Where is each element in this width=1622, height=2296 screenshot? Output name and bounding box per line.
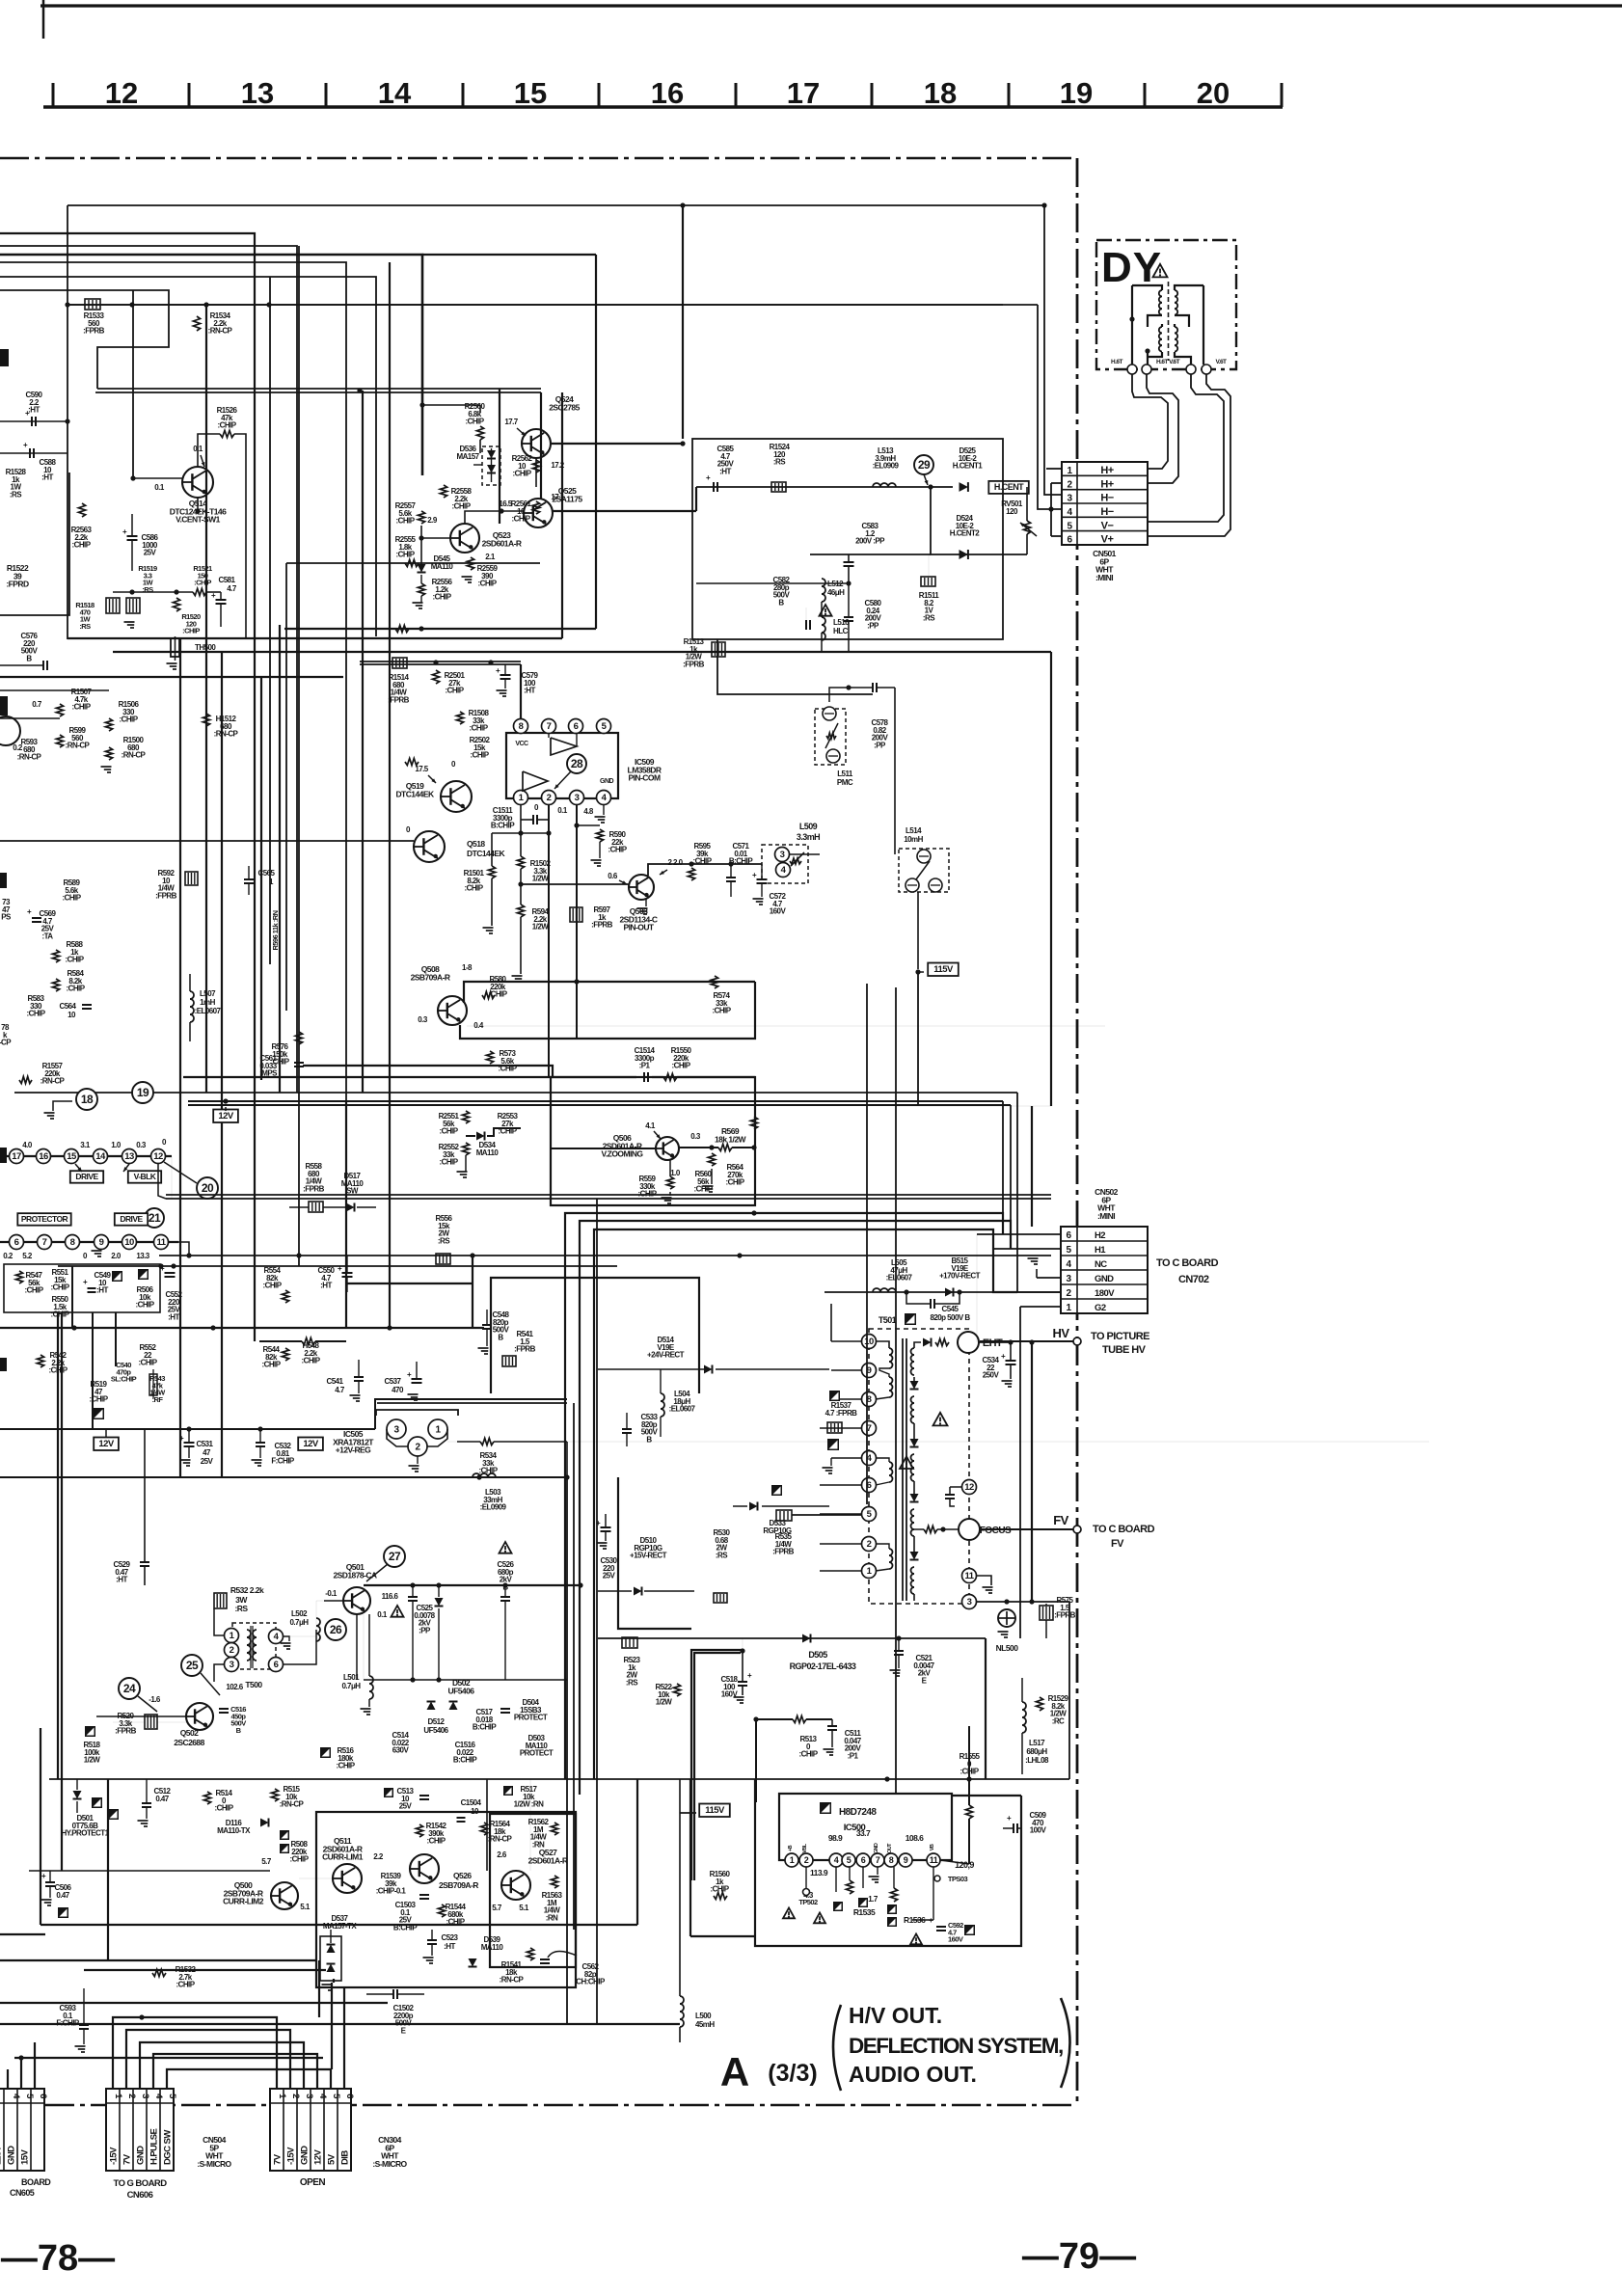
- wire x1109 vertical: [1068, 1602, 1070, 1779]
- svg-text::EL0607: :EL0607: [886, 1274, 913, 1283]
- wire CN502 G2 column: [1019, 1307, 1021, 1638]
- svg-text::RS: :RS: [438, 1237, 450, 1246]
- svg-text:1/2W: 1/2W: [532, 923, 549, 932]
- svg-text:DRIVE: DRIVE: [120, 1214, 143, 1224]
- DY junction node 2: [1145, 348, 1149, 353]
- T501 pin 2: [862, 1537, 877, 1552]
- wire CN502 H1 from bus: [1010, 1105, 1012, 1249]
- flag symbol c: [93, 1408, 104, 1419]
- wire CN304 col5 to box: [331, 1983, 333, 2069]
- wire vertical x150: [144, 1429, 146, 1562]
- svg-text:PROTECT: PROTECT: [520, 1749, 554, 1758]
- svg-text:6: 6: [344, 2093, 355, 2098]
- transistor Q502: [186, 1703, 213, 1730]
- L509 pin 3: [775, 848, 790, 862]
- svg-text:4.7: 4.7: [335, 1386, 345, 1394]
- flag symbol a: [112, 1271, 122, 1282]
- vertical x661: [636, 1779, 638, 1925]
- svg-text:GND: GND: [874, 1843, 879, 1853]
- IC500 pin 6: [856, 1853, 870, 1867]
- wire C583 row: [810, 554, 931, 555]
- svg-text:BOARD: BOARD: [21, 2177, 51, 2187]
- T501 pin 5: [862, 1507, 877, 1522]
- wire vertical x187: [179, 638, 181, 1477]
- wire x96 column: [92, 1312, 94, 1429]
- wire DY H+ to CN501 pin1: [1132, 374, 1168, 469]
- svg-text:5: 5: [847, 1855, 852, 1865]
- wire x60 column: [57, 1312, 59, 1779]
- IC509 pin 6: [569, 719, 583, 734]
- svg-text:0.1: 0.1: [557, 806, 568, 815]
- svg-text::CHIP: :CHIP: [217, 421, 236, 430]
- wire CN502 GND stub with ground: [1037, 1277, 1061, 1279]
- boxed label DRIVE a: [70, 1171, 103, 1183]
- svg-text::RN: :RN: [546, 1914, 558, 1923]
- svg-text:PMC: PMC: [837, 778, 853, 787]
- svg-text:+B: +B: [788, 1845, 794, 1851]
- svg-text:2SB709A-R: 2SB709A-R: [411, 972, 450, 982]
- wire x705 vertical: [679, 1779, 681, 1996]
- T501 pin 7: [862, 1421, 877, 1436]
- callout 27: [384, 1546, 405, 1567]
- svg-text:H.6T V.6T: H.6T V.6T: [1156, 359, 1180, 365]
- wire FV line: [982, 1528, 1077, 1530]
- vertical x770 from D505 line: [742, 1638, 743, 1682]
- svg-text:16: 16: [39, 1151, 48, 1162]
- svg-text::FPRB: :FPRB: [155, 892, 176, 901]
- junction bus y316 a: [65, 302, 69, 307]
- svg-text:GND: GND: [7, 2146, 17, 2165]
- svg-text::CHIP: :CHIP: [89, 1395, 108, 1404]
- junction DY wires: [1041, 203, 1046, 207]
- svg-text:15: 15: [514, 76, 547, 110]
- wire pin4 ground: [830, 1458, 832, 1466]
- svg-text:4: 4: [834, 1855, 839, 1865]
- svg-text:2SC2688: 2SC2688: [174, 1738, 204, 1747]
- IC500 warning triangle 2: [910, 1934, 922, 1945]
- boxed label 115V a: [928, 963, 959, 977]
- svg-text:12: 12: [105, 76, 138, 110]
- resistor R597: [570, 907, 582, 922]
- svg-text:VB: VB: [930, 1844, 935, 1850]
- flag symbol near R1537: [827, 1439, 839, 1450]
- svg-text::CHIP: :CHIP: [464, 884, 483, 893]
- wire D533 row: [733, 1505, 747, 1507]
- svg-text:H−: H−: [1100, 506, 1113, 518]
- test point TPS03: [934, 1876, 940, 1881]
- T501 primary winding upper: [889, 1348, 893, 1355]
- box around R1522: [0, 473, 69, 615]
- svg-text:NC: NC: [1095, 1259, 1107, 1270]
- boxed label DRIVE b: [115, 1213, 148, 1226]
- svg-text:115V: 115V: [705, 1805, 725, 1816]
- wire H.CENT row: [696, 486, 953, 488]
- DY yoke right leg wire: [1203, 285, 1204, 365]
- wire vertical x359 extension: [345, 1101, 347, 1328]
- svg-text:B:CHIP: B:CHIP: [453, 1756, 477, 1765]
- DY yoke H tap wire: [1147, 352, 1149, 365]
- transistor Q506: [656, 1137, 679, 1160]
- svg-text:B: B: [498, 1334, 503, 1342]
- svg-text::CHIP: :CHIP: [182, 627, 200, 635]
- section note parenthesis left: [833, 2005, 841, 2091]
- svg-text:NL500: NL500: [996, 1643, 1019, 1653]
- svg-text:+24V-RECT: +24V-RECT: [647, 1351, 685, 1360]
- svg-text::CHIP: :CHIP: [426, 1837, 446, 1846]
- wire bottom bus loop 4: [153, 2054, 317, 2089]
- wire vertical x310: [298, 246, 300, 1266]
- junction bus y316 c: [203, 302, 208, 307]
- resistor R2563: [78, 503, 85, 517]
- wire vertical x214: [205, 305, 207, 1093]
- wire x722 link: [695, 487, 697, 511]
- svg-text:PIN-OUT: PIN-OUT: [623, 923, 654, 932]
- svg-text:H.CENT2: H.CENT2: [950, 529, 980, 538]
- svg-text:H8D7248: H8D7248: [839, 1807, 877, 1818]
- svg-text::CHIP-0.1: :CHIP-0.1: [376, 1887, 407, 1896]
- svg-text:25V: 25V: [201, 1457, 214, 1466]
- wire Q523 Q525 link: [465, 511, 524, 524]
- svg-text::P1: :P1: [639, 1062, 651, 1070]
- resistor R2501: [432, 670, 439, 684]
- svg-text::PP: :PP: [874, 742, 886, 750]
- resistor R2558: [440, 485, 446, 498]
- svg-text::CHIP: :CHIP: [451, 502, 471, 511]
- svg-text:R532 2.2k: R532 2.2k: [230, 1585, 264, 1595]
- wire vertical x138: [132, 290, 134, 478]
- wire double bus y1146: [188, 1104, 1011, 1106]
- svg-text:TO C BOARD: TO C BOARD: [1093, 1524, 1155, 1535]
- IC500 pin 8: [884, 1853, 898, 1867]
- ruler tick 6: [871, 83, 874, 107]
- T501 pin 6: [862, 1478, 877, 1493]
- wire bus y214 to CN501 pin3: [68, 205, 1062, 495]
- T501 pin 4: [862, 1451, 877, 1466]
- IC500 pin 7: [871, 1853, 884, 1867]
- IC509 pin3 column: [576, 805, 578, 1039]
- wire left rows: [0, 689, 109, 691]
- wire y1940 mid: [299, 1877, 333, 1879]
- page border dash-dot bottom: [0, 2104, 1077, 2107]
- svg-text:H−: H−: [1100, 493, 1113, 504]
- svg-text:0.1: 0.1: [154, 483, 165, 492]
- svg-text:2: 2: [230, 1645, 234, 1656]
- wire staircase y272: [0, 262, 346, 1101]
- svg-text:2: 2: [290, 2093, 301, 2098]
- svg-text:TO G BOARD: TO G BOARD: [113, 2178, 167, 2189]
- svg-text:C531: C531: [197, 1440, 214, 1448]
- wire stub CN501 pin2: [1051, 482, 1062, 484]
- node H.CENT boxed label: [988, 481, 1029, 494]
- svg-text:F:CHIP: F:CHIP: [271, 1457, 295, 1466]
- svg-text:A: A: [720, 2049, 749, 2094]
- junction y1532: [476, 1474, 481, 1479]
- wire L509 out: [789, 853, 820, 855]
- wire vertical x290: [279, 625, 281, 1093]
- bus jog up: [375, 1399, 567, 1429]
- wire x928 down: [894, 688, 896, 854]
- svg-text:12V: 12V: [98, 1439, 114, 1449]
- svg-text:17: 17: [12, 1151, 21, 1162]
- L509 pin 4: [776, 863, 791, 878]
- svg-text:2: 2: [547, 793, 552, 803]
- svg-text:CN702: CN702: [1178, 1274, 1209, 1285]
- wire to CN501 pin4 vertical: [1038, 305, 1062, 509]
- svg-text:MA110: MA110: [476, 1148, 500, 1157]
- svg-text:2: 2: [867, 1539, 872, 1550]
- pin circle 6: [10, 1235, 24, 1250]
- svg-text:+170V-RECT: +170V-RECT: [939, 1272, 981, 1281]
- diode EHT rectifier: [923, 1338, 932, 1347]
- svg-text:2 2.0: 2 2.0: [667, 858, 683, 867]
- IC500 warning triangle 3: [783, 1908, 795, 1919]
- wire Q506 base: [551, 1148, 656, 1149]
- svg-text:SL:CHIP: SL:CHIP: [111, 1375, 137, 1384]
- IC500 pin 2: [799, 1853, 813, 1867]
- svg-text:46μH: 46μH: [827, 588, 845, 597]
- svg-text:UF5406: UF5406: [423, 1726, 448, 1735]
- wire bus y1133: [14, 1092, 1017, 1094]
- svg-text:L514: L514: [906, 826, 922, 835]
- svg-text:Q518: Q518: [467, 839, 485, 849]
- wire CN605 stubs: [7, 2069, 9, 2089]
- svg-text:D512: D512: [428, 1717, 446, 1726]
- svg-text::CHIP: :CHIP: [498, 1065, 517, 1073]
- twin diode box: [320, 1936, 341, 1981]
- svg-text::CHIP: :CHIP: [66, 985, 85, 993]
- svg-text::FPRB: :FPRB: [1054, 1611, 1075, 1620]
- svg-text:820p 500V B: 820p 500V B: [930, 1313, 970, 1322]
- transistor Q511: [333, 1864, 362, 1893]
- svg-text:1/2W: 1/2W: [656, 1698, 672, 1707]
- svg-text:15: 15: [67, 1151, 77, 1162]
- diodes D512 D513: [427, 1702, 436, 1711]
- pin circle 7: [38, 1235, 52, 1250]
- wire y584 to D545: [286, 562, 540, 564]
- resistor R590: [577, 824, 600, 826]
- wire Q514 base: [133, 477, 182, 479]
- wire x1030 vertical: [992, 1248, 994, 1250]
- junction bus687 a: [433, 660, 438, 664]
- svg-text:H.CENT: H.CENT: [994, 482, 1024, 492]
- svg-text::CHIP: :CHIP: [725, 1178, 744, 1187]
- capacitor C572: [757, 878, 768, 880]
- svg-text:C565: C565: [258, 869, 276, 878]
- svg-text:24: 24: [123, 1682, 136, 1695]
- wire x120 column: [115, 1312, 117, 1366]
- transistor Q527: [501, 1871, 530, 1900]
- wire pin11 to R1555 column: [940, 1860, 969, 1864]
- IC509 body: [506, 733, 618, 798]
- wire Q514 collector: [198, 434, 220, 467]
- wire L511 top: [829, 688, 849, 702]
- T501 secondary winding with HV diodes: [911, 1348, 915, 1355]
- svg-text:AUDIO OUT.: AUDIO OUT.: [849, 2062, 977, 2087]
- DY box dash-dot border: [1096, 240, 1236, 369]
- wire 170V row: [825, 1291, 1061, 1293]
- wire bus y2043: [84, 1969, 326, 1971]
- svg-text:250V: 250V: [983, 1371, 1000, 1380]
- vertical x716: [689, 1779, 691, 1936]
- svg-text::FPRB: :FPRB: [83, 327, 104, 336]
- svg-text:L511: L511: [837, 770, 853, 778]
- T501 warning triangle: [933, 1413, 948, 1426]
- svg-text:MA110-TX: MA110-TX: [217, 1826, 251, 1835]
- left edge block 2: [0, 696, 8, 716]
- transformer T501 dashed outline: [869, 1329, 969, 1604]
- svg-text:1.0: 1.0: [111, 1141, 122, 1149]
- ground pin row 2: [92, 1250, 102, 1252]
- capacitor focus divider: [945, 1494, 955, 1496]
- svg-text:102.6: 102.6: [226, 1683, 243, 1691]
- vertical x588 long: [566, 1477, 568, 2024]
- wire D534 row: [466, 1135, 475, 1137]
- svg-text:1: 1: [790, 1855, 795, 1865]
- wire bus y2134: [14, 2057, 323, 2059]
- wire EHT to HV: [979, 1341, 1011, 1343]
- DY yoke H-coil lower loop: [1159, 327, 1162, 333]
- ruler tick 2: [325, 83, 328, 107]
- svg-text:11: 11: [157, 1237, 167, 1248]
- svg-text:DGC SW: DGC SW: [163, 2130, 174, 2165]
- wire q-cluster columns: [486, 1779, 488, 1871]
- wire vertical x618: [595, 255, 597, 583]
- transistor Q508: [438, 996, 467, 1025]
- svg-text::CHIP: :CHIP: [50, 1310, 69, 1319]
- warning triangle C525: [392, 1606, 404, 1617]
- left edge block 1: [0, 349, 9, 366]
- IC500 pin 4: [829, 1853, 843, 1867]
- wire RV501 to pin rows: [1026, 487, 1028, 521]
- svg-text:V.6T: V.6T: [1216, 359, 1228, 365]
- svg-text::MPS: :MPS: [259, 1069, 278, 1078]
- svg-text:14: 14: [95, 1151, 106, 1162]
- box D514 outline: [491, 1278, 699, 1393]
- svg-text:0.7: 0.7: [32, 700, 42, 709]
- ruler baseline: [43, 105, 1283, 108]
- svg-text:115V: 115V: [0, 2145, 4, 2165]
- capacitor C582 wires: [805, 608, 807, 625]
- EHT terminal circle: [958, 1332, 979, 1353]
- svg-text::CHIP: :CHIP: [511, 515, 530, 524]
- transistor Q525: [524, 499, 553, 527]
- box line y1699: [598, 1637, 986, 1639]
- svg-text::RN-CP: :RN-CP: [17, 753, 42, 762]
- DY terminal circle 1: [1127, 365, 1137, 374]
- wire DY V- to CN501 pin5: [1149, 374, 1224, 522]
- svg-text:B:CHIP: B:CHIP: [729, 857, 753, 866]
- svg-text::RN-CP: :RN-CP: [41, 1077, 66, 1086]
- svg-text:MA110: MA110: [481, 1943, 504, 1952]
- IC509 opamp B: [523, 771, 548, 791]
- svg-text:L517: L517: [1029, 1739, 1045, 1747]
- wire vertical x376: [362, 391, 364, 1093]
- svg-text::PP: :PP: [419, 1627, 431, 1635]
- svg-text::HT: :HT: [41, 473, 53, 482]
- wire vertical x404: [389, 262, 391, 1329]
- svg-text:OPEN: OPEN: [300, 2177, 325, 2188]
- box Q514 right edge x583: [561, 392, 563, 638]
- resistor R2559: [467, 557, 473, 570]
- wire bus y1845: [49, 1778, 1069, 1780]
- svg-text:8: 8: [70, 1237, 75, 1248]
- wire stub CN501 pin6: [1051, 535, 1062, 537]
- wire staircase y255: [0, 246, 297, 1093]
- IC509 opamp A: [551, 738, 577, 755]
- svg-text:V.CENT-SW1: V.CENT-SW1: [176, 515, 220, 525]
- wire double bus y1142: [188, 1100, 1003, 1102]
- vertical x1013 H2: [976, 1234, 978, 1342]
- svg-text:B:CHIP: B:CHIP: [393, 1924, 418, 1932]
- IC509 pin4 ground: [603, 805, 605, 815]
- svg-text:F:CHIP: F:CHIP: [56, 2019, 80, 2028]
- svg-text:2: 2: [804, 1855, 809, 1865]
- svg-text:3.1: 3.1: [80, 1141, 91, 1149]
- svg-text::CHIP: :CHIP: [432, 593, 451, 602]
- resistor R1533: [85, 299, 100, 310]
- svg-text:HY.PROTECT1: HY.PROTECT1: [61, 1829, 109, 1838]
- junction bus687 b: [488, 660, 493, 664]
- wire bottom bus loop 5: [167, 2069, 331, 2089]
- page corner tick left: [42, 0, 45, 39]
- svg-text::HT: :HT: [28, 406, 40, 415]
- transistor Q519: [441, 781, 472, 812]
- flag symbol C506: [58, 1907, 68, 1918]
- svg-text::RS: :RS: [716, 1552, 728, 1560]
- svg-text:630V: 630V: [392, 1746, 410, 1755]
- wire H.CENT loop down: [931, 487, 1027, 554]
- svg-text:DRIVE: DRIVE: [75, 1172, 98, 1181]
- svg-text::HT: :HT: [524, 687, 535, 695]
- svg-text:GND: GND: [1095, 1274, 1114, 1284]
- svg-text:DTC144EK: DTC144EK: [467, 849, 505, 858]
- bus y1302: [159, 1255, 1051, 1256]
- svg-text:EHT: EHT: [983, 1337, 1003, 1349]
- IC500 pin 1: [785, 1853, 798, 1867]
- junction bus 1142: [223, 1098, 228, 1103]
- svg-text::RC: :RC: [1052, 1717, 1065, 1726]
- flag symbol b: [138, 1269, 149, 1280]
- svg-text:13: 13: [124, 1151, 134, 1162]
- svg-text::CHIP: :CHIP: [26, 1010, 45, 1018]
- DY yoke left leg wire: [1131, 285, 1133, 365]
- boxed label 12V a: [213, 1110, 238, 1123]
- svg-text:17: 17: [787, 76, 820, 110]
- T501 pin12: [962, 1480, 977, 1495]
- svg-text:PIN-COM: PIN-COM: [629, 773, 661, 783]
- svg-text:+12V-REG: +12V-REG: [336, 1445, 371, 1455]
- box A around Q511 cluster: [316, 1812, 576, 1987]
- double bus y1239: [166, 1194, 1051, 1196]
- svg-text:10: 10: [124, 1237, 134, 1248]
- resistor EHT series: [935, 1338, 949, 1345]
- svg-text:R596 11k :RN: R596 11k :RN: [271, 910, 280, 950]
- wire DY V+ to CN501 pin6: [1149, 374, 1230, 536]
- svg-text::CHIP: :CHIP: [512, 470, 531, 478]
- boxed label 12V b: [94, 1438, 119, 1451]
- box B around Q527: [490, 1814, 576, 1967]
- svg-text:116.6: 116.6: [382, 1592, 399, 1601]
- svg-text:1-8: 1-8: [462, 963, 473, 972]
- wire bus y2099: [0, 2023, 680, 2025]
- callout 20: [197, 1177, 218, 1199]
- svg-text::CHIP: :CHIP: [176, 1981, 195, 1989]
- T501 pin 1: [862, 1564, 877, 1579]
- svg-text:13.3: 13.3: [136, 1252, 149, 1260]
- svg-text:2.2: 2.2: [373, 1852, 384, 1861]
- svg-text:CN605: CN605: [10, 2188, 35, 2198]
- big box bottom-left outline: [40, 1728, 41, 1925]
